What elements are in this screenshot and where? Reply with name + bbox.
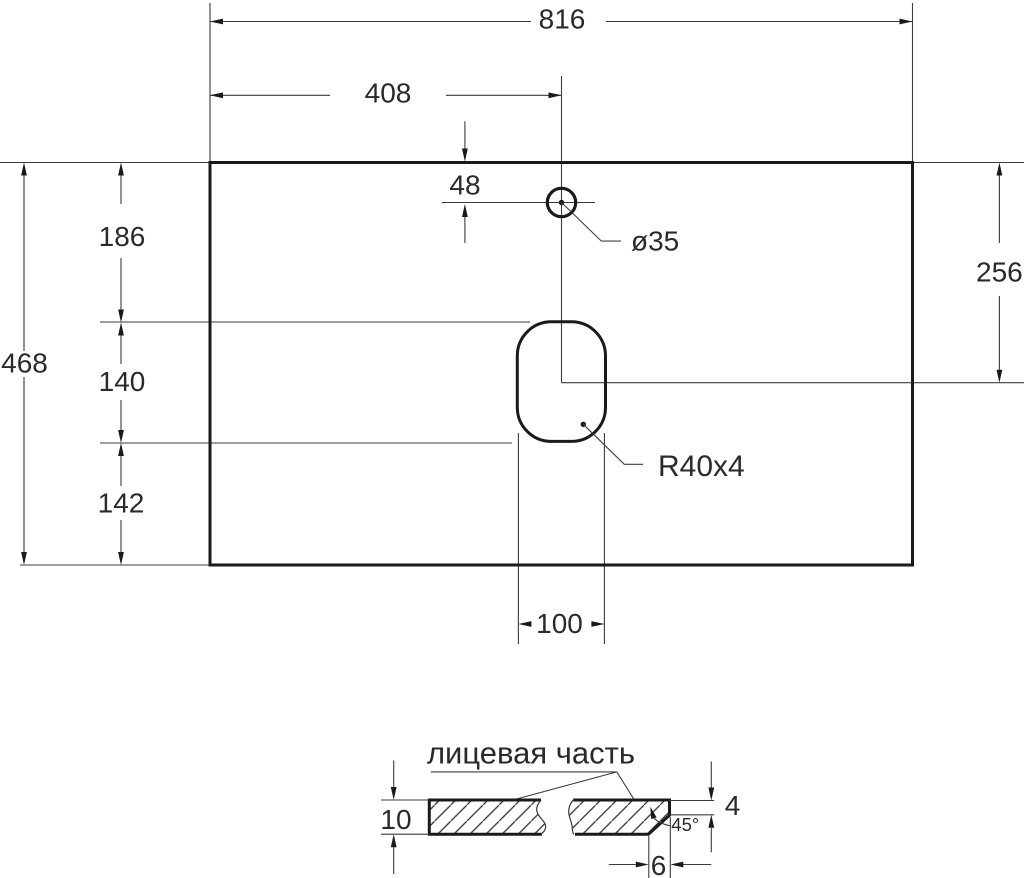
dimension 142 [98, 443, 145, 565]
basin cutout R40x4 [517, 322, 605, 442]
dimension 100 [518, 608, 604, 639]
svg-text:лицевая часть: лицевая часть [427, 736, 635, 771]
section: left slab outline [429, 800, 542, 834]
dimension 10 [380, 761, 429, 875]
extension line vertical left x=210 [209, 3, 211, 163]
extension line cutout left vertical [517, 433, 519, 644]
leader R40x4 [581, 422, 745, 483]
svg-text:408: 408 [365, 77, 412, 108]
leader ø35 [562, 203, 680, 257]
dimension 816 [210, 3, 913, 34]
label 45 degrees [650, 807, 699, 835]
svg-text:186: 186 [99, 221, 146, 252]
dimension 468 [1, 163, 48, 566]
extension line cutout top [100, 321, 530, 323]
svg-text:816: 816 [539, 3, 586, 34]
section: left slab hatch [425, 795, 550, 840]
dimension 186 [99, 163, 146, 323]
section: right slab outline [573, 800, 669, 834]
hole center dot [559, 200, 564, 205]
svg-text:100: 100 [536, 608, 583, 639]
svg-text:142: 142 [98, 488, 145, 519]
svg-text:48: 48 [449, 170, 480, 201]
svg-text:45°: 45° [671, 814, 699, 835]
svg-text:256: 256 [976, 257, 1023, 288]
svg-text:140: 140 [99, 366, 146, 397]
svg-text:ø35: ø35 [631, 226, 679, 257]
svg-text:R40x4: R40x4 [658, 450, 745, 483]
extension line vertical right x=912.5 [912, 3, 914, 163]
center line vertical through hole [561, 76, 563, 383]
section: right slab break line [569, 800, 574, 834]
extension line bottom-left [20, 564, 210, 566]
dimension 4 [670, 762, 741, 853]
extension line top-left [0, 162, 210, 164]
section: right slab hatch [566, 795, 676, 840]
section: left slab break line [537, 800, 546, 834]
dimension 48 [449, 121, 480, 243]
svg-text:6: 6 [651, 850, 667, 878]
svg-text:4: 4 [725, 790, 741, 821]
dimension 408 [210, 77, 562, 108]
svg-text:468: 468 [1, 348, 48, 379]
horizontal line to 256 dim [562, 382, 1024, 384]
countertop outline [210, 163, 913, 566]
extension line top-right [913, 162, 1024, 164]
dimension 140 [99, 323, 146, 444]
dimension 256 [976, 163, 1023, 383]
section: label лицевая часть [427, 736, 635, 801]
extension line cutout bottom [100, 442, 512, 444]
svg-text:10: 10 [380, 804, 411, 835]
hole horizontal centerline [442, 202, 595, 204]
dimension 6 [609, 817, 712, 878]
faucet hole ø35 [547, 188, 575, 216]
extension line cutout right vertical [603, 433, 605, 644]
